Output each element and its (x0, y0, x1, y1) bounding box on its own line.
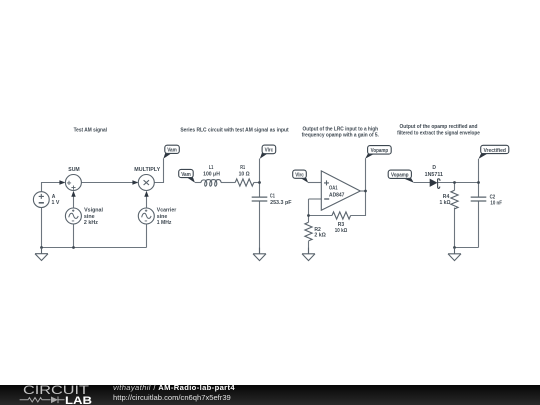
svg-text:1 V: 1 V (52, 200, 61, 206)
svg-text:D: D (432, 165, 436, 171)
svg-text:Test AM signal: Test AM signal (74, 127, 108, 133)
svg-text:100 μH: 100 μH (203, 171, 220, 177)
svg-text:1N5711: 1N5711 (425, 172, 444, 178)
svg-text:253.3 pF: 253.3 pF (270, 200, 291, 206)
svg-text:Vrectified: Vrectified (483, 148, 506, 154)
svg-text:Vsignal: Vsignal (84, 208, 104, 214)
svg-text:2 kΩ: 2 kΩ (314, 233, 326, 239)
svg-text:LAB: LAB (65, 395, 92, 405)
svg-text:MULTIPLY: MULTIPLY (134, 167, 161, 173)
svg-text:filtered to extract the signal: filtered to extract the signal envelope (397, 130, 480, 136)
svg-text:C1: C1 (270, 194, 275, 200)
svg-text:Vcarrier: Vcarrier (157, 208, 176, 214)
svg-text:1 MHz: 1 MHz (157, 220, 172, 226)
svg-text:OA1: OA1 (329, 186, 338, 192)
svg-text:Vopamp: Vopamp (371, 148, 389, 154)
svg-text:Series RLC circuit with test A: Series RLC circuit with test AM signal a… (180, 127, 288, 133)
svg-text:Vlrc: Vlrc (265, 148, 274, 154)
svg-text:R4: R4 (443, 194, 450, 200)
svg-text:Vlrc: Vlrc (295, 173, 304, 179)
svg-text:Output of the opamp rectified: Output of the opamp rectified and (400, 124, 479, 130)
svg-text:A: A (52, 194, 56, 200)
svg-text:R1: R1 (240, 165, 245, 171)
svg-text:sine: sine (84, 214, 95, 220)
svg-text:sine: sine (157, 214, 168, 220)
svg-text:2 kHz: 2 kHz (84, 220, 99, 226)
svg-text:SUM: SUM (68, 167, 79, 173)
svg-text:Output of the LRC input to a h: Output of the LRC input to a high (303, 127, 379, 133)
svg-text:AD847: AD847 (329, 192, 345, 198)
svg-text:Vopamp: Vopamp (391, 173, 409, 179)
svg-text:Vam: Vam (167, 148, 177, 154)
svg-text:1 kΩ: 1 kΩ (440, 200, 451, 206)
svg-text:10 Ω: 10 Ω (239, 172, 250, 178)
svg-text:R3: R3 (338, 222, 345, 228)
svg-text:Vam: Vam (181, 172, 191, 178)
svg-text:10 kΩ: 10 kΩ (335, 228, 347, 234)
svg-text:L1: L1 (209, 165, 214, 171)
svg-text:frequency opamp with a gain of: frequency opamp with a gain of 5. (302, 133, 380, 139)
svg-text:10 nF: 10 nF (490, 200, 502, 206)
